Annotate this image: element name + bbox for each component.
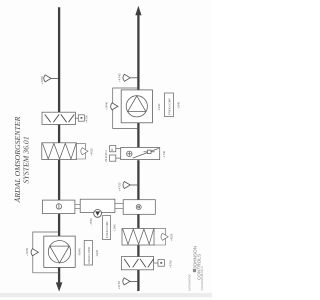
frequency converter extract fan	[84, 241, 92, 266]
wire supply duct bottom segment	[137, 269, 139, 291]
pump JP40	[94, 210, 102, 218]
svg-text:+JR40: +JR40	[104, 101, 108, 110]
svg-text:+4706: +4706	[169, 260, 173, 268]
svg-text:-L940: -L940	[113, 224, 117, 232]
wire extract duct between coil and filter	[58, 124, 60, 144]
svg-text:+JR40: +JR40	[25, 247, 29, 256]
wire supply duct between fan and damper box	[137, 122, 139, 148]
damper heat box supply	[121, 148, 160, 160]
heating coil supply	[121, 257, 153, 270]
pipe neck left	[75, 204, 81, 208]
svg-text:-RV40: -RV40	[78, 248, 82, 256]
wire extract duct upper segment	[58, 7, 60, 113]
svg-text:FREKV.OMF: FREKV.OMF	[105, 221, 109, 238]
heating coil extract	[42, 112, 76, 124]
heat recovery exchanger extract box	[43, 200, 75, 214]
wire supply duct between filter and coil	[137, 244, 139, 258]
fan extract JV40	[44, 236, 75, 267]
wire supply duct between exchanger box and filter	[137, 214, 139, 230]
run-around pipe duct middle	[80, 199, 115, 212]
pressure sensor supply fan	[111, 103, 118, 110]
frequency converter middle	[103, 216, 111, 240]
pressure sensor loop supply filter	[154, 228, 168, 245]
pipe neck right	[115, 203, 123, 208]
sensor supply outdoor	[123, 74, 137, 81]
fan supply JV40	[121, 90, 152, 123]
filter extract	[42, 143, 77, 160]
svg-text:+4710: +4710	[117, 281, 121, 290]
svg-text:+4700: +4700	[40, 76, 44, 85]
sensor on extract coil	[76, 115, 85, 121]
svg-text:+4720: +4720	[118, 182, 122, 191]
svg-text:+4025: +4025	[89, 148, 93, 156]
svg-text:+4026: +4026	[170, 233, 174, 241]
svg-text:-JP40: -JP40	[89, 218, 93, 226]
wire supply duct arrow top	[135, 6, 141, 16]
svg-text:-JV40: -JV40	[157, 103, 161, 111]
bypass supply fan	[113, 88, 139, 128]
svg-text:FREKV.OMF: FREKV.OMF	[167, 98, 171, 115]
bottom scan band	[0, 293, 212, 297]
bypass extract fan	[33, 232, 59, 273]
control boxes A	[110, 146, 121, 162]
pressure sensor loop extract filter	[76, 143, 88, 159]
logo johnson controls	[188, 246, 205, 291]
svg-text:-36.4019-4: -36.4019-4	[105, 150, 108, 163]
svg-text:AUTOMATIKK: AUTOMATIKK	[188, 274, 192, 291]
svg-text:-L940: -L940	[177, 101, 181, 109]
sensor GT extract inlet	[44, 75, 58, 82]
svg-text:-L740: -L740	[162, 150, 166, 158]
svg-text:+4705: +4705	[85, 115, 89, 123]
pressure sensor extract fan	[31, 249, 38, 256]
svg-text:GRENSEVN.88.OSLO: GRENSEVN.88.OSLO	[201, 266, 204, 290]
wire extract duct between exchanger box and fan	[58, 213, 60, 237]
sensor on supply coil	[154, 260, 165, 267]
svg-text:+4740: +4740	[117, 73, 121, 82]
svg-text:SYSTEM 36.01: SYSTEM 36.01	[21, 136, 30, 183]
wire extract duct exhaust with arrow	[58, 267, 60, 284]
heat recovery exchanger supply box	[123, 200, 155, 215]
svg-text:FREKV.OMF: FREKV.OMF	[87, 246, 91, 263]
sensor supply mid	[123, 182, 137, 189]
wire extract duct between filter and exchanger box	[58, 159, 60, 201]
title text SYSTEM 36.01	[13, 116, 30, 203]
wire supply duct between damper box and exchanger box	[137, 160, 139, 200]
frequency converter supply fan	[165, 93, 174, 117]
filter supply	[122, 228, 154, 245]
svg-text:-L940: -L940	[95, 249, 99, 257]
sensor supply bottom	[123, 278, 138, 285]
